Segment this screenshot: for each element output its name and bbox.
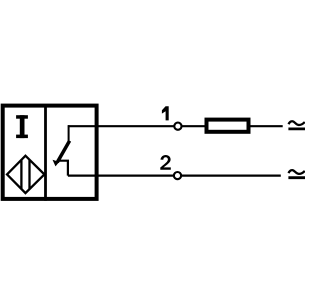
wire 2 <box>68 175 281 177</box>
label 1 <box>162 106 169 120</box>
resistor R <box>207 120 249 132</box>
sensor body box <box>3 106 97 199</box>
terminal 2 circle <box>174 172 181 179</box>
switch lever <box>57 141 69 163</box>
AC symbol 2 (tilde) <box>289 170 305 174</box>
switch bottom contact step <box>58 161 68 176</box>
AC symbol 1 (bar) <box>288 127 305 130</box>
terminal 1 circle <box>174 123 181 130</box>
divider line <box>44 104 47 201</box>
letter I (induction marking) <box>16 115 28 138</box>
inductive sensor diamond symbol <box>7 156 44 193</box>
AC symbol 2 (bar) <box>288 176 305 179</box>
switch lever arrowhead <box>53 160 60 167</box>
wire 1 <box>68 125 283 127</box>
label 2 <box>160 155 171 170</box>
switch fixed contact (top post) <box>68 125 70 141</box>
AC symbol 1 (tilde) <box>289 121 305 125</box>
